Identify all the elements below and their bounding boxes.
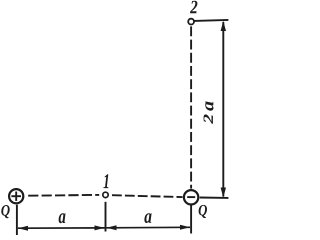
label 1 [103, 174, 108, 188]
wire: dashed line from +Q to point 1 [28, 194, 99, 197]
dimension arrow a (right span) [107, 225, 191, 231]
label Q (right) [199, 205, 207, 218]
wire: top horizontal line from point 2 [194, 20, 228, 21]
dimension arrow 2a (vertical, double-headed) [221, 21, 226, 198]
label 2a: digit 2 (rotated) [204, 114, 213, 124]
extension tick below point 1 [105, 202, 107, 232]
label 2a: letter a (rotated) [205, 101, 213, 110]
extension tick below +Q [16, 205, 18, 235]
wire: dashed line from point 1 to -Q [112, 195, 183, 197]
wire: dashed vertical line from point 2 to -Q [190, 26, 192, 188]
extension tick below -Q [190, 205, 192, 233]
plus sign [11, 192, 21, 201]
label 2 [190, 1, 197, 14]
label a (left) [59, 213, 66, 223]
charge -Q circle [184, 190, 198, 204]
wire: bottom right horizontal line from -Q [200, 197, 229, 199]
dimension arrow a (left span) [18, 225, 105, 230]
label Q (left) [1, 205, 9, 218]
node 1 small circle [103, 192, 108, 197]
minus sign [187, 196, 195, 198]
node 2 small circle [188, 19, 194, 25]
charge +Q circle [9, 189, 23, 203]
label a (right) [144, 213, 151, 223]
